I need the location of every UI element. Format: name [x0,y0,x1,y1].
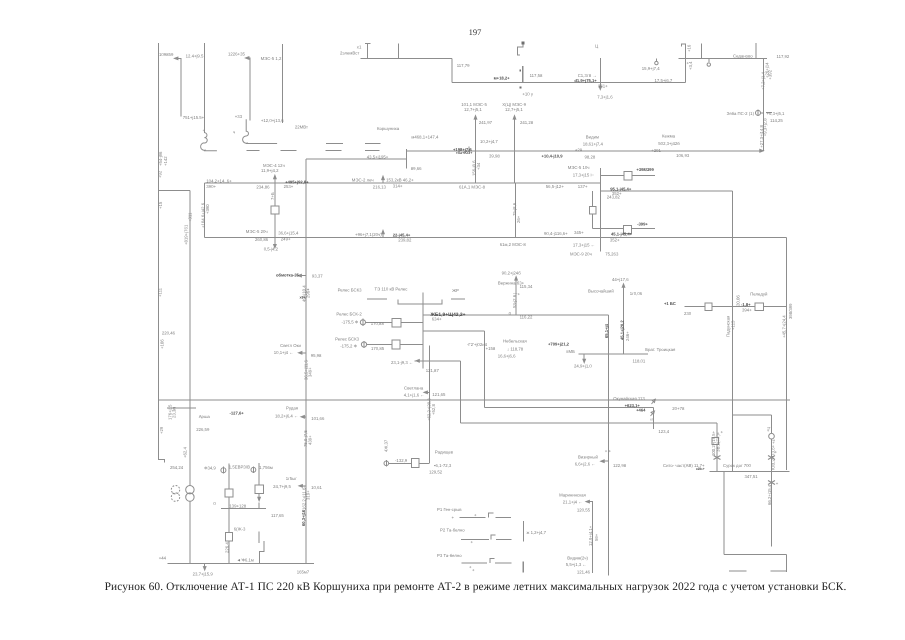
svg-text:м468,1+147,4: м468,1+147,4 [411,135,439,140]
reactor coil L2 [243,119,277,143]
stub generator x708 [708,58,710,62]
svg-text:+29: +29 [159,426,164,434]
svg-text:+з: +з [771,439,776,444]
line БС y306 with breakers [685,306,787,308]
БСК row3 generator [361,342,366,347]
svg-text:106,93: 106,93 [676,153,690,158]
svg-text:+: + [474,513,477,518]
svg-text:239,82: 239,82 [398,237,412,242]
tick x523 rows [522,521,524,541]
БСК row1 bracket [398,300,442,304]
svg-text:Зяба ПС-2 (1): Зяба ПС-2 (1) [727,111,755,116]
svg-text:+390: +390 [205,204,210,214]
svg-text:226,4: 226,4 [224,542,229,553]
svg-text:89,66: 89,66 [411,166,422,171]
line МЭС-5 arrow x475 [475,118,477,183]
svg-text:220,46: 220,46 [162,330,176,335]
svg-text:10,61: 10,61 [311,485,322,490]
svg-text:12,7+j5,1: 12,7+j5,1 [505,107,523,112]
svg-text:0: 0 [213,501,216,506]
svg-text:+142: +142 [163,156,168,166]
svg-text:10,1+j4 ←: 10,1+j4 ← [274,350,294,355]
svg-text:МЭС-2 леч: МЭС-2 леч [352,177,374,182]
svg-text:Релес БСК-2: Релес БСК-2 [336,312,362,317]
svg-text:66,2+j15,4: 66,2+j15,4 [767,484,772,505]
labels Коршуниха node [367,126,501,171]
svg-text:+115: +115 [731,320,736,330]
svg-text:90,2+j24б: 90,2+j24б [502,270,522,275]
svg-text:Светлана: Светлана [404,386,424,391]
wire y407 [485,407,654,409]
svg-text:+96+j7,1(20ч): +96+j7,1(20ч) [355,232,382,237]
svg-text:+ +: + + [605,449,612,454]
svg-text:243,82: 243,82 [607,194,621,199]
svg-text:+10 у: +10 у [522,92,533,97]
wire y423 [460,422,717,424]
tick arrow down x204 [204,563,206,568]
line МЭС-9 arrow x514 [514,118,516,183]
svg-text:-132,9: -132,9 [395,458,408,463]
labels bottom middle [384,439,627,574]
svg-text:44+j17,6: 44+j17,6 [612,277,629,282]
svg-text:Брат. Троицкая: Брат. Троицкая [645,347,676,352]
wire y330 [423,330,485,332]
tick Визирный [603,460,609,462]
svg-text:Ц: Ц [595,44,599,49]
tick y485 x305 [301,485,306,487]
svg-text:53-j2,6: 53-j2,6 [512,294,517,308]
svg-text:249+: 249+ [281,237,291,242]
svg-text:95,98: 95,98 [311,353,322,358]
dashed bus 220 kV row2 [247,150,380,152]
svg-text:+52,8: +52,8 [431,404,436,415]
svg-text:+6,3+j5,1: +6,3+j5,1 [767,111,786,116]
bus y400 [159,399,791,401]
svg-text:ЖР: ЖР [452,288,459,293]
svg-text:123,4: 123,4 [658,429,669,434]
svg-text:398/399: 398/399 [788,303,793,319]
svg-text:45,1-j45,4+: 45,1-j45,4+ [611,231,633,236]
svg-text:241,97: 241,97 [479,120,493,125]
svg-text:1,756м: 1,756м [259,465,273,470]
bus y237 [205,236,787,238]
svg-text:+44: +44 [159,556,167,561]
line x771 generator [771,415,773,434]
svg-text:Р2 Та-белно: Р2 Та-белно [440,528,465,533]
svg-text:5,5+j1,3 ←: 5,5+j1,3 ← [566,562,587,567]
svg-text:122,98: 122,98 [613,463,627,468]
svg-text:12,9+j4,1+: 12,9+j4,1+ [588,525,593,546]
node bar x522 [522,66,524,82]
feeder vertical x158 [159,43,165,462]
line Падунская vertical [731,191,733,472]
bus y150 solid [406,150,763,152]
line Светлый x429 [429,346,431,463]
svg-text:Визирный: Визирный [578,455,598,460]
wire x516 to bus314 [515,279,517,315]
transformer АТ-1 [186,486,194,494]
svg-text:-Г2'+j02и4: -Г2'+j02и4 [467,342,488,347]
transformer АТ-2 dashed [171,486,179,494]
labels МЭС lines [461,102,533,125]
labels left lines bus400 [196,343,325,447]
small mark x468 y148 [468,147,470,152]
svg-text:98,28: 98,28 [585,155,596,160]
svg-text:≡МБ: ≡МБ [566,349,575,354]
wire y554 [724,554,786,556]
svg-text:20+78: 20+78 [672,406,685,411]
svg-text:22МВт: 22МВт [295,124,308,129]
dash y571 right [771,570,787,572]
line Марининская x592 [588,502,592,573]
load arrow x600 [599,58,601,87]
svg-text:60,3+j16: 60,3+j16 [301,509,306,526]
svg-text:+29: +29 [575,148,583,153]
svg-text:+: + [472,568,475,573]
svg-text:Седаново: Седаново [733,53,753,58]
svg-text:х1: х1 [357,44,362,49]
wire corner to lower bus [451,58,453,82]
wire y414 [732,414,771,416]
svg-text:+: + [452,515,455,520]
svg-text:241,28: 241,28 [520,120,534,125]
svg-text:117,58: 117,58 [530,73,543,78]
labels top-left feeders [159,52,308,135]
step wire to bus [259,532,264,564]
svg-text:23,7+j15,9: 23,7+j15,9 [193,571,214,576]
svg-text:4,1+j1,6 ←: 4,1+j1,6 ← [404,392,425,397]
reactor coil L1 [201,133,217,151]
svg-text:-175,2 Ф: -175,2 Ф [340,344,357,349]
svg-text:-1,8+: -1,8+ [741,302,751,307]
svg-text:11,9+j4,2: 11,9+j4,2 [261,168,279,173]
svg-text:39,98: 39,98 [489,153,500,158]
svg-text:104,2+14,,6+: 104,2+14,,6+ [206,178,232,183]
svg-text:ж 1,2+j4,7: ж 1,2+j4,7 [527,530,547,535]
svg-text:Светл Оки: Светл Оки [280,343,301,348]
svg-text:МЭС-5 20ч: МЭС-5 20ч [246,229,268,234]
svg-text:обмотка-35: обмотка-35 [276,273,300,278]
stub breaker y175 [600,174,655,176]
svg-text:120,55: 120,55 [577,508,591,513]
bus arrow tick y183 x383 [382,178,384,183]
svg-text:Р3 Та-белно: Р3 Та-белно [437,553,462,558]
wire y508 [221,508,266,510]
svg-text:ЖБ1,9+Щ42,2+: ЖБ1,9+Щ42,2+ [430,312,466,318]
svg-text:кйЬ+: кйЬ+ [696,467,705,471]
svg-text:+15: +15 [158,201,163,209]
svg-text:56,5-j12+: 56,5-j12+ [546,184,565,189]
svg-text:0,5-j4,2: 0,5-j4,2 [264,246,279,251]
svg-text:352+: 352+ [610,238,620,243]
svg-text:349+: 349+ [308,367,313,377]
svg-text:+819+j7б1: +819+j7б1 [183,224,188,245]
svg-text:216,13: 216,13 [373,185,387,190]
svg-text:+464: +464 [636,408,646,413]
svg-text:15,9+j7,4: 15,9+j7,4 [642,66,660,71]
svg-text:Видим: Видим [586,135,599,140]
svg-text:-175,5 Ф: -175,5 Ф [342,319,359,324]
labels Зяба column [727,62,785,148]
svg-text:1г0,06: 1г0,06 [630,291,643,296]
svg-text:МЭС-5 1,2: МЭС-5 1,2 [261,56,282,61]
svg-text:+: + [776,481,779,486]
generator tick Зяба [761,112,764,114]
svg-text:Ф34,9: Ф34,9 [204,466,216,471]
svg-text:Кежма: Кежма [662,133,676,138]
wire y360 Светлана [418,360,460,362]
svg-text:117,92: 117,92 [777,54,790,59]
symbol flag x518 [518,44,523,54]
labels bus183 [183,160,588,245]
svg-text:121,65: 121,65 [432,392,446,397]
svg-text:101,66: 101,66 [311,416,325,421]
node tick x701 [701,43,703,58]
generator P1 row [460,516,512,518]
svg-text:234,86: 234,86 [256,185,270,190]
wire riser x685 [684,44,686,83]
svg-text:Радищев: Радищев [435,450,454,455]
dashed bus 220 kV row1 [326,143,381,145]
svg-text:61А,1 МЭС-8: 61А,1 МЭС-8 [459,185,486,190]
svg-text:10,2+j4,7: 10,2+j4,7 [480,139,498,144]
svg-text:18,2+j6,4 ←: 18,2+j6,4 ← [275,414,298,419]
svg-text:75,263: 75,263 [605,251,619,256]
svg-text:+106: +106 [160,339,165,349]
svg-text:137+: 137+ [578,184,588,189]
labels Падун area [663,291,793,505]
wire link y190 [159,190,190,192]
svg-text:+12,0+j13,6: +12,0+j13,6 [261,118,284,123]
svg-text:439+: 439+ [308,435,313,445]
labels Высочайший area [566,277,685,434]
svg-text:тХа+ЮЗ+: тХа+ЮЗ+ [456,151,472,155]
wire Коршуниха top [306,158,407,160]
svg-text:59+: 59+ [594,533,599,541]
generator P3 row [462,562,512,564]
svg-text:65,1+j4: 65,1+j4 [604,323,609,338]
generator G2 [251,467,256,472]
svg-text:1г5ыг: 1г5ыг [286,476,297,481]
svg-text:75-j8,6: 75-j8,6 [512,202,517,216]
svg-text:+: + [203,129,205,133]
wire y190 to Падун corner [600,190,732,192]
line Зяба vertical [762,58,764,151]
svg-text:170,88: 170,88 [371,321,385,326]
generator G1 [221,468,226,473]
wire corner x786 down [786,237,788,470]
svg-text:ТЭ 110 кВ Релес: ТЭ 110 кВ Релес [375,287,409,292]
svg-text:Релес БСК3: Релес БСК3 [338,288,363,293]
svg-text:+1 БС: +1 БС [664,301,676,306]
wire x515 between buses [515,183,517,237]
feeder vertical x204 [204,43,206,133]
svg-text:22-j45,4+: 22-j45,4+ [393,232,411,237]
svg-text:43,5+j195+: 43,5+j195+ [367,155,389,160]
svg-text:МЭС-5 10ч: МЭС-5 10ч [568,165,590,170]
svg-text:d1,9+j75,1+: d1,9+j75,1+ [574,78,597,83]
svg-text:45,1+j20,2: 45,1+j20,2 [619,320,624,340]
line x228 with breakers [228,463,230,563]
bus y183 [205,182,601,184]
svg-text:24,7+j9,5: 24,7+j9,5 [273,484,291,489]
svg-text:153,2кВ 46,2+: 153,2кВ 46,2+ [386,177,414,182]
svg-text:ч: ч [233,130,235,135]
svg-text:х8+: х8+ [300,296,306,300]
БСК row1 dashes [367,298,465,300]
svg-text:+9,3+j2,8: +9,3+j2,8 [763,118,768,137]
svg-text:+34: +34 [476,162,481,170]
svg-text:Арша: Арша [199,414,211,419]
line drop 12.4+j9.5 [175,58,182,116]
arrowheads bus150 right end [760,149,764,152]
tick y352 x305 [301,352,306,354]
svg-text:+3,4: +3,4 [688,61,693,70]
svg-text:90,4-j116,6+: 90,4-j116,6+ [544,231,568,236]
svg-text:170,85: 170,85 [371,346,385,351]
svg-text:12,7+j5,1: 12,7+j5,1 [464,107,482,112]
svg-text:751+j15.5+: 751+j15.5+ [183,115,205,120]
svg-text:23,1-j9,3 ←: 23,1-j9,3 ← [391,360,413,365]
labels bold emphasized [230,75,752,526]
svg-text:21,1+j4 ←: 21,1+j4 ← [563,499,583,504]
bus y471 bottom-right [709,471,789,473]
svg-text:260,86: 260,86 [255,237,269,242]
bus y82 [452,81,686,83]
svg-text:Видим(2ч): Видим(2ч) [567,555,588,560]
svg-text:+311: +311 [187,212,192,222]
svg-text:361+: 361+ [598,84,608,89]
svg-text:+709+j21,2: +709+j21,2 [548,341,570,346]
labels top middle [340,44,790,100]
svg-text:↓ 118,78: ↓ 118,78 [507,346,524,351]
svg-text:139+128: 139+128 [229,504,246,509]
svg-text:345+: 345+ [574,230,584,235]
tick Светлый y392 [426,391,430,393]
svg-text:7,3+j1,6: 7,3+j1,6 [597,94,613,99]
svg-text:226,59: 226,59 [196,427,210,432]
svg-text:6(Ж-3: 6(Ж-3 [234,527,246,532]
svg-text:254,24: 254,24 [170,465,184,470]
svg-text:390+: 390+ [206,184,216,189]
svg-text:118,01: 118,01 [633,358,646,363]
svg-text:61м,2 МЭС-8: 61м,2 МЭС-8 [500,242,527,247]
svg-text:+392: +392 [768,69,773,79]
svg-text:+33: +33 [235,114,243,119]
generator P2 row [461,539,511,541]
tick y416 x305 [303,416,306,418]
svg-text:+16: +16 [687,44,692,52]
svg-text:Окунайская 113: Окунайская 113 [613,396,645,401]
svg-text:230: 230 [684,311,692,316]
wire box left x204 [204,183,206,237]
svg-text:24,9+j1,0: 24,9+j1,0 [574,363,592,368]
svg-text:95,1-j45,4+: 95,1-j45,4+ [610,187,632,192]
node tick x398 [397,44,399,59]
generator Радищев [384,461,389,466]
branch with breaker x592 [592,191,594,229]
svg-text:117,79: 117,79 [457,63,470,68]
wire x786 down [785,555,787,572]
node tick x367 [365,43,371,58]
bus 110 kV top-left [361,57,452,59]
svg-text:+10,4-j10,9: +10,4-j10,9 [542,154,564,159]
svg-text:7+Б: 7+Б [270,192,275,200]
svg-text:Марининская: Марининская [559,493,586,498]
svg-text:м+18,2+: м+18,2+ [494,75,511,80]
line x259 with breaker [258,463,260,498]
branch МЭС-4 with breaker [274,178,276,238]
svg-text:+495+j92,8+: +495+j92,8+ [285,179,309,184]
svg-text:+291: +291 [651,148,661,153]
svg-text:253+: 253+ [284,184,294,189]
svg-text:Рудая: Рудая [286,406,299,411]
svg-text:Высочайший: Высочайший [588,288,614,293]
svg-text:93,37: 93,37 [312,274,323,279]
svg-text:2элемВст: 2элемВст [340,51,359,56]
svg-text:+398/399: +398/399 [636,167,654,172]
labels БСК block [300,270,534,351]
svg-text:17,3+j15 ←: 17,3+j15 ← [573,243,595,248]
svg-text:117,65: 117,65 [271,513,284,518]
branch МЭС-5 10ч vertical [599,168,601,252]
svg-text:6,6+j2,6 ←: 6,6+j2,6 ← [575,461,596,466]
svg-text:246+: 246+ [625,331,630,341]
wire БСК stem x422 [422,292,424,368]
wire x460 down [459,361,461,423]
labels bus237 [246,165,622,256]
svg-text:109859: 109859 [159,52,174,57]
node stub x406 [405,149,407,169]
svg-text:+ц: +ц [765,426,770,432]
bus arrow tick y237 x383 [382,232,384,237]
tick y361 arrow 23.1 [415,360,416,362]
svg-text:+: + [518,292,521,297]
svg-text:-127,6+: -127,6+ [230,411,245,416]
svg-text:17,5+j6,7: 17,5+j6,7 [655,78,673,83]
symbol flag x681 [682,44,686,47]
line Коршуниха vertical [305,159,307,564]
bus y563 bottom-left [168,562,314,564]
svg-text:+92: +92 [158,170,163,178]
svg-text:165м7: 165м7 [297,569,310,574]
svg-text:•6,1-72,3: •6,1-72,3 [434,463,452,468]
svg-text:1226+35: 1226+35 [228,52,245,57]
svg-text:116,22: 116,22 [520,314,533,319]
feeder vertical x282 [281,44,283,123]
stub generator x656 [655,58,657,61]
svg-text:Пеледуй: Пеледуй [750,291,768,296]
tick arrow down x584 [583,354,585,361]
svg-text:+: + [471,540,474,545]
svg-text:121,87: 121,87 [426,368,440,373]
svg-text:115,34: 115,34 [520,284,533,289]
svg-text:502,3+j42б: 502,3+j42б [658,141,680,146]
wire x484 down [484,331,486,408]
svg-text:Р1 Ген-срыв: Р1 Ген-срыв [437,507,462,512]
svg-text:+45,7+j24,4: +45,7+j24,4 [782,315,787,338]
line Высочайший arrow [623,286,625,354]
stub breaker y228 [593,228,656,230]
svg-text:394+: 394+ [742,307,752,312]
svg-text:ЮВ,2+ПЗ,б+: ЮВ,2+ПЗ,б+ [771,444,776,470]
svg-text:+: + [721,430,724,435]
wire y353 Братская [579,353,648,355]
line АТ vertical x189 [189,191,191,486]
bus y314 [423,314,609,316]
node tick x756 [755,43,757,58]
svg-text:+111: +111 [158,287,163,297]
